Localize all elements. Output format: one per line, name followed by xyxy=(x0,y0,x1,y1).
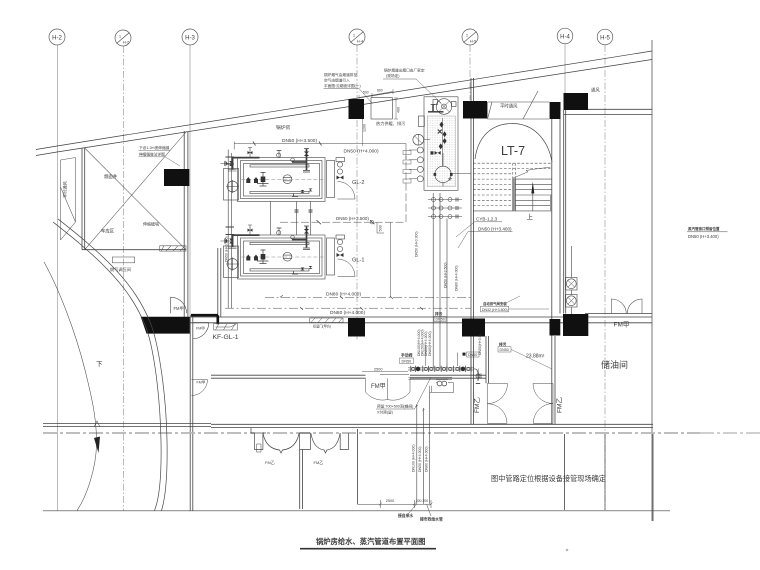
svg-text:FM乙: FM乙 xyxy=(265,459,275,465)
PIPE dim line above GL-2 xyxy=(234,142,406,161)
column B9 xyxy=(550,319,561,336)
grid bubble H-5 xyxy=(597,29,613,45)
svg-text:DN50 (H+3.400): DN50 (H+3.400) xyxy=(688,234,719,239)
svg-text:23.88m²: 23.88m² xyxy=(526,354,545,360)
vent opening between columns xyxy=(488,91,550,119)
door FM-jia storage double xyxy=(612,299,643,314)
blowdown fitting pair xyxy=(437,381,442,386)
tube bar top xyxy=(250,165,309,167)
svg-text:H-4: H-4 xyxy=(560,35,570,41)
X brace diagonal 1 xyxy=(85,148,186,250)
svg-text:1200: 1200 xyxy=(363,124,367,132)
svg-text:DN80 (H+4.000): DN80 (H+4.000) xyxy=(455,265,459,291)
top annotations xyxy=(324,72,361,88)
svg-text:热力供暖、排污: 热力供暖、排污 xyxy=(376,120,405,127)
svg-text:H-3: H-3 xyxy=(185,36,195,42)
ramp break mark xyxy=(94,421,100,427)
svg-text:DN50: DN50 xyxy=(468,353,477,357)
svg-text:DN50(H+3.5): DN50(H+3.5) xyxy=(478,334,482,355)
WALLS xyxy=(43,78,760,521)
corridor centerline gray band xyxy=(43,432,700,434)
manifold right elbow xyxy=(474,369,478,381)
door FM-jia corridor double xyxy=(366,379,411,401)
EQUIPMENT PLATFORM xyxy=(403,97,471,191)
svg-text:FM乙: FM乙 xyxy=(473,397,481,413)
svg-text:DN80 (H+4.000): DN80 (H+4.000) xyxy=(330,310,365,316)
right heavy pipe xyxy=(292,161,307,163)
grid line 1/H-2 xyxy=(123,46,125,511)
wall: boiler room south band (two lines) xyxy=(190,317,652,323)
stair dome arch xyxy=(475,124,552,163)
grid line H-4 xyxy=(564,44,566,93)
svg-text:蒸汽管接口预留位置: 蒸汽管接口预留位置 xyxy=(688,226,720,231)
wall: storage door sill line xyxy=(585,313,652,315)
svg-text:FM乙: FM乙 xyxy=(314,459,324,465)
feed pump left xyxy=(413,134,424,145)
mid stub xyxy=(278,151,280,159)
svg-text:图中管路定位根据设备接管现场确定: 图中管路定位根据设备接管现场确定 xyxy=(491,474,606,483)
svg-text:DN50 (H+3.400): DN50 (H+3.400) xyxy=(478,227,512,232)
column B3 stair right narrow xyxy=(550,102,561,119)
svg-text:FM甲: FM甲 xyxy=(614,321,630,329)
svg-text:H-5: H-5 xyxy=(600,36,610,42)
column B7 xyxy=(348,318,365,337)
svg-text:伸缩缝做法详图: 伸缩缝做法详图 xyxy=(139,152,165,157)
svg-text:DN50: DN50 xyxy=(402,359,412,363)
grid bubble H-3 xyxy=(182,29,198,45)
burner circle xyxy=(227,181,238,192)
risers to manifold xyxy=(433,193,447,369)
boiler centerline xyxy=(241,179,324,181)
svg-text:CYB-1,2,3: CYB-1,2,3 xyxy=(476,217,498,222)
svg-text:H-5: H-5 xyxy=(470,39,477,44)
boiler body outer xyxy=(238,158,326,202)
svg-text:通风: 通风 xyxy=(591,87,600,94)
wall: corridor north pair xyxy=(211,424,653,427)
bay column 3 xyxy=(340,433,348,450)
wall: stair east pair xyxy=(552,119,560,424)
top pipe stubs and valves xyxy=(232,157,260,159)
svg-text:400: 400 xyxy=(397,107,401,113)
svg-text:GL-1: GL-1 xyxy=(352,258,364,264)
manifold risers down to street xyxy=(417,392,430,504)
stair up arrow xyxy=(532,193,534,211)
riser up xyxy=(425,345,427,366)
grid line 1/H-5 xyxy=(469,45,471,100)
svg-text:DN50 (H+0.300): DN50 (H+0.300) xyxy=(225,236,229,262)
water pump top xyxy=(436,99,452,115)
salt tank xyxy=(435,166,451,182)
grid bubble H-2 xyxy=(49,29,65,45)
svg-text:排污: 排污 xyxy=(499,342,507,347)
svg-text:上: 上 xyxy=(527,212,534,221)
bay arch 1 xyxy=(263,434,299,454)
door FM-jia upper-left xyxy=(171,297,187,313)
svg-text:(现场定): (现场定) xyxy=(386,73,400,78)
vertical pipe labels bottom set xyxy=(412,444,429,472)
BLACK BLOCKS xyxy=(141,93,589,337)
KF louver xyxy=(214,318,344,330)
svg-text:锅炉房给水、蒸汽管道布置平面图: 锅炉房给水、蒸汽管道布置平面图 xyxy=(316,537,425,546)
svg-text:H-4: H-4 xyxy=(357,39,364,44)
vertical pipe labels right of boilers xyxy=(225,231,459,291)
column B8 xyxy=(462,319,485,337)
steam drop pipe xyxy=(390,222,392,297)
svg-text:KF-GL-1: KF-GL-1 xyxy=(213,334,239,341)
platform stippled pad xyxy=(427,116,455,186)
BOILER GL-2 xyxy=(221,148,356,202)
wall: south band x564 xyxy=(564,434,566,510)
svg-text:锅炉烟道出烟口由厂家定: 锅炉烟道出烟口由厂家定 xyxy=(384,68,425,73)
column B2 left of stair xyxy=(463,101,487,119)
wall: stair west pair xyxy=(471,78,474,424)
bay column 2 xyxy=(300,433,311,450)
DOORS xyxy=(171,297,643,423)
svg-text:H-2: H-2 xyxy=(52,36,62,42)
roof dim ticks xyxy=(359,89,393,100)
svg-text:500: 500 xyxy=(363,91,369,95)
door FM-jia KF xyxy=(193,323,209,339)
svg-text:平时通风: 平时通风 xyxy=(62,180,69,198)
column B10 xyxy=(563,314,588,336)
pipe DN80 runs xyxy=(225,295,471,310)
left vent shaft sliver xyxy=(61,158,76,241)
svg-text:锅炉房: 锅炉房 xyxy=(276,124,291,131)
stair break line xyxy=(513,167,551,178)
stair stringer xyxy=(513,178,516,211)
stair treads dashed left flight xyxy=(473,163,551,205)
svg-text:排污: 排污 xyxy=(435,311,443,316)
svg-text:DN50 (H+3.500): DN50 (H+3.500) xyxy=(336,216,369,221)
X brace diagonal 2 xyxy=(85,132,186,250)
svg-text:FM乙: FM乙 xyxy=(556,397,564,413)
boiler body inner xyxy=(241,161,323,199)
stair treads right flight xyxy=(515,179,551,206)
fitting rows below platform xyxy=(428,198,462,219)
svg-text:空气由烟道引入: 空气由烟道引入 xyxy=(324,78,350,83)
svg-text:伸缩缝墙: 伸缩缝墙 xyxy=(143,221,159,227)
svg-text:DN100 (H+4.000): DN100 (H+4.000) xyxy=(412,444,416,472)
svg-text:2500: 2500 xyxy=(374,367,382,371)
bay column 1 xyxy=(251,428,266,450)
column B6 slanted bottom-left xyxy=(141,317,190,334)
wall: storage west pair xyxy=(564,110,566,314)
manifold valve ticks xyxy=(411,366,471,372)
ramp guide arc xyxy=(44,262,97,511)
sight glass circle xyxy=(283,175,292,184)
manifold extras xyxy=(362,371,408,373)
svg-text:DN50: DN50 xyxy=(436,318,445,322)
wall: boiler room west pair xyxy=(190,315,193,511)
platform outer xyxy=(424,97,458,191)
stepped pipe xyxy=(380,375,452,393)
svg-text:DN50 (H+0.300): DN50 (H+0.300) xyxy=(415,231,419,257)
KF heavy wall L xyxy=(191,315,218,324)
column B4 storage top xyxy=(564,93,589,110)
burner box xyxy=(224,169,239,201)
svg-text:DN50 (H+3.500): DN50 (H+3.500) xyxy=(444,262,448,288)
wall: X-room east pair xyxy=(184,131,188,317)
svg-text:FM甲: FM甲 xyxy=(197,380,206,385)
wall: south band middle pillar xyxy=(300,450,303,510)
grid line H-3 xyxy=(189,45,191,315)
grid line H-5 xyxy=(604,45,606,510)
svg-text:LT-7: LT-7 xyxy=(501,144,525,158)
tube bar bottom xyxy=(250,191,309,193)
vertical pipe labels top set xyxy=(417,329,432,356)
pump dark fitting xyxy=(428,111,444,113)
svg-text:X付预(留): X付预(留) xyxy=(377,410,393,415)
svg-text:445: 445 xyxy=(479,373,483,379)
svg-text:下设1.2m宽伸缩缝: 下设1.2m宽伸缩缝 xyxy=(139,145,170,150)
right exterior wall xyxy=(651,40,653,521)
bottom boundary line xyxy=(43,510,670,512)
svg-text:车库区: 车库区 xyxy=(101,228,115,235)
right panel xyxy=(327,161,335,198)
svg-text:200 200: 200 200 xyxy=(416,499,428,503)
roof edge outer line xyxy=(36,51,652,150)
door FM-jia mid xyxy=(192,380,208,396)
svg-text:手动阀: 手动阀 xyxy=(401,353,413,358)
tiny circle mark xyxy=(566,549,568,551)
door FM-yi west pair xyxy=(487,384,507,404)
svg-text:下: 下 xyxy=(96,360,103,368)
reserved hole note xyxy=(377,404,413,415)
svg-text:DN50 (H+4.000): DN50 (H+4.000) xyxy=(344,149,379,155)
column B5 X-room east xyxy=(164,169,189,186)
door FM-yi east pair xyxy=(533,384,553,404)
wall: storage top pair xyxy=(564,109,653,114)
vent louver rect with hatch xyxy=(160,246,186,251)
grid bubble 1/H-2 xyxy=(115,30,131,46)
wall: FM-door wall y376 xyxy=(211,375,486,378)
ramp arrow head xyxy=(94,437,100,454)
svg-text:H-2: H-2 xyxy=(123,40,130,45)
wall: boiler room inner west pair xyxy=(218,248,221,317)
svg-text:接市政给水管: 接市政给水管 xyxy=(419,517,443,522)
wall: X-room bottom xyxy=(82,249,186,251)
grid line 1/H-4 xyxy=(356,45,358,340)
grid bubble 1/H-5 xyxy=(462,29,478,45)
svg-text:DN80 (H+4.000): DN80 (H+4.000) xyxy=(425,446,429,472)
grid line H-2 xyxy=(57,45,59,511)
storage risers with valves xyxy=(566,246,578,314)
ARCS bottom-left xyxy=(44,219,167,511)
svg-text:织留门(甲方): 织留门(甲方) xyxy=(313,324,331,329)
svg-text:DN50 (H+4.000): DN50 (H+4.000) xyxy=(418,446,422,472)
svg-text:烟囱井: 烟囱井 xyxy=(104,173,118,180)
445 dim xyxy=(478,368,480,379)
gas room window rect xyxy=(112,257,134,263)
wall: south band vertical x357.5 xyxy=(357,429,359,504)
MANIFOLD xyxy=(362,345,483,504)
svg-text:GL-2: GL-2 xyxy=(352,180,364,186)
roof edge inner line xyxy=(36,60,652,156)
wall: corridor west pair xyxy=(43,424,211,427)
svg-text:FM甲: FM甲 xyxy=(371,383,386,390)
ramp wall arc inner xyxy=(53,222,161,511)
svg-text:接自来水: 接自来水 xyxy=(397,513,413,518)
svg-text:800: 800 xyxy=(377,89,383,93)
svg-text:预留:700×500洞(蝶阀): 预留:700×500洞(蝶阀) xyxy=(377,404,413,409)
manifold header pipe xyxy=(408,368,474,370)
svg-text:DN32 (H+3.500): DN32 (H+3.500) xyxy=(482,308,508,312)
dim line 2500 xyxy=(358,500,433,516)
wall: manifold room east door wall xyxy=(486,336,489,383)
grid bubble H-4 xyxy=(557,28,573,44)
stair bottom landing line xyxy=(473,210,551,212)
wall: X-room west pair xyxy=(82,148,85,250)
svg-text:平时通风: 平时通风 xyxy=(500,103,518,110)
left risers xyxy=(228,150,231,309)
svg-text:FM甲: FM甲 xyxy=(196,325,205,330)
X-ROOM interior xyxy=(61,132,187,263)
roof opening rect xyxy=(371,98,392,119)
svg-text:锅炉烟气由烟道排至: 锅炉烟气由烟道排至 xyxy=(324,72,357,77)
svg-text:储油间: 储油间 xyxy=(601,359,628,370)
boiler interconnect pipes xyxy=(226,150,313,309)
softener column glyphs xyxy=(442,118,444,166)
ARCH BAYS bottom xyxy=(251,428,348,453)
svg-text:燃气调压间: 燃气调压间 xyxy=(110,266,131,273)
svg-text:DN50 (H+3.500): DN50 (H+3.500) xyxy=(282,138,317,144)
right fittings xyxy=(336,158,345,162)
grid bubble 1/H-4 xyxy=(349,29,365,45)
BOILER GL-1 xyxy=(221,225,356,279)
STAIR LT-7 xyxy=(473,124,552,211)
left small flanged connections xyxy=(417,147,423,153)
DN50 tag right xyxy=(467,352,480,357)
ramp wall arc outer xyxy=(58,219,167,511)
svg-text:2500: 2500 xyxy=(386,499,394,503)
internal fittings xyxy=(246,177,250,183)
pipe DN50 H+3.500 lower xyxy=(280,156,406,233)
svg-text:DN80(H+4.000): DN80(H+4.000) xyxy=(428,331,432,356)
svg-text:500: 500 xyxy=(379,225,383,231)
bay arch 2 xyxy=(311,434,340,454)
boiler door swing xyxy=(338,182,356,200)
column B1 on roof xyxy=(349,99,365,119)
svg-text:自动排气阀安装: 自动排气阀安装 xyxy=(483,301,507,306)
svg-text:DN80 (H+4.000): DN80 (H+4.000) xyxy=(326,292,361,298)
wall: x653 below corridor xyxy=(652,434,654,521)
svg-text:平面图:见烟囱详图(一): 平面图:见烟囱详图(一) xyxy=(324,83,361,88)
svg-text:DN50: DN50 xyxy=(500,348,509,352)
south band x605 wall xyxy=(604,434,606,510)
